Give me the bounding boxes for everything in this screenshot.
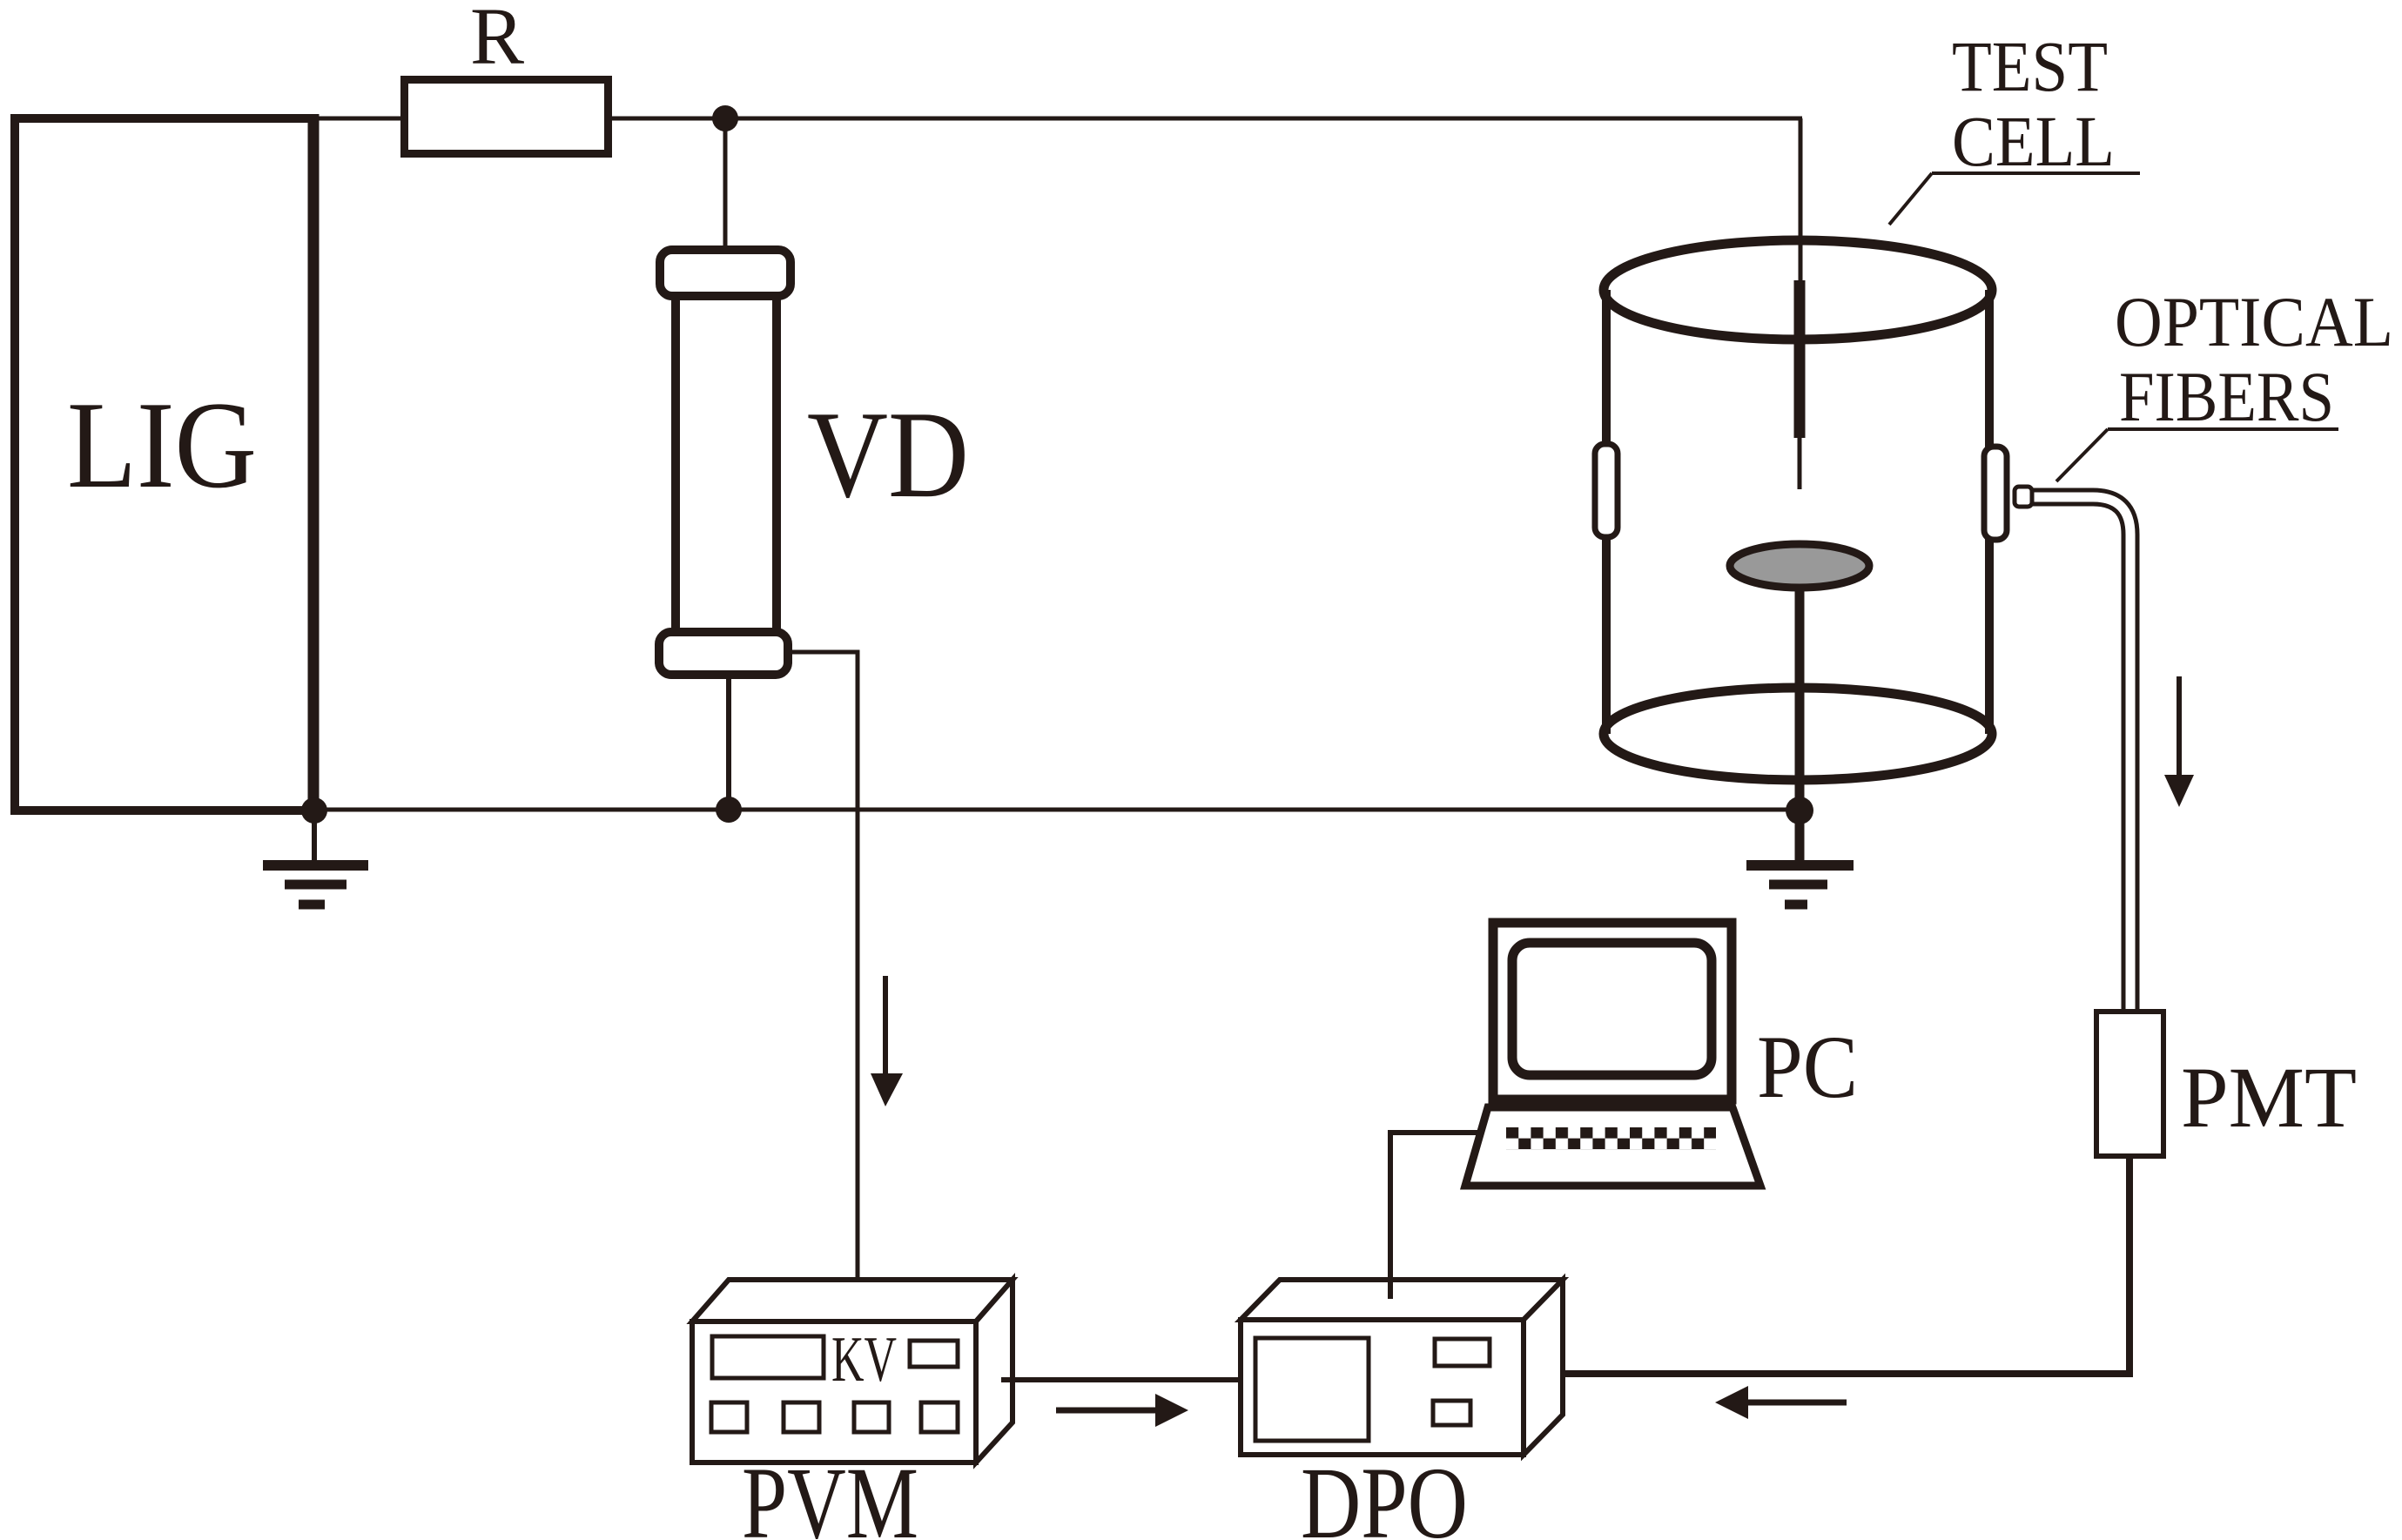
PMT box — [2096, 1012, 2163, 1156]
bottom electrode disc — [1730, 544, 1869, 588]
resistor R — [405, 80, 609, 154]
test cell cylinder left wall — [1602, 290, 1611, 734]
arrow right on PVM-DPO wire — [1056, 1408, 1158, 1414]
VD bottom cap — [659, 632, 788, 675]
PC monitor — [1493, 923, 1732, 1100]
svg-text:PVM: PVM — [742, 1446, 918, 1540]
wire R to test cell — [608, 117, 1802, 121]
node D junction dot — [301, 797, 327, 824]
ground (test cell) — [1746, 865, 1854, 904]
arrow down beside fiber — [2177, 676, 2182, 781]
wire VD bottom to node B — [726, 675, 731, 810]
test cell bottom ellipse — [1604, 688, 1992, 780]
PC keyboard — [1465, 1107, 1760, 1186]
keyboard keys — [1506, 1127, 1716, 1149]
svg-text:R: R — [470, 0, 524, 82]
LIG generator box — [15, 114, 313, 815]
node B junction dot — [716, 797, 742, 823]
svg-text:FIBERS: FIBERS — [2119, 357, 2334, 436]
top electrode — [1799, 118, 1803, 287]
wire VD tap to PVM — [788, 652, 858, 1288]
right window — [1984, 447, 2007, 540]
svg-text:PC: PC — [1757, 1018, 1858, 1117]
DPO oscilloscope 3D box — [1241, 1280, 1563, 1455]
wire node A down to VD — [723, 118, 728, 261]
node A junction dot — [712, 105, 738, 131]
wire PVM to DPO — [1001, 1377, 1241, 1382]
node C junction dot — [1786, 797, 1813, 824]
test cell cylinder right wall — [1985, 290, 1994, 734]
svg-text:OPTICAL: OPTICAL — [2115, 282, 2393, 361]
ground (LIG) — [263, 810, 368, 904]
fiber connector nub — [2015, 487, 2032, 507]
svg-text:PMT: PMT — [2181, 1049, 2357, 1146]
voltage divider VD body — [676, 279, 777, 653]
electrode stem — [1795, 590, 1805, 864]
PVM meter 3D box — [692, 1280, 1013, 1463]
svg-text:DPO: DPO — [1301, 1446, 1468, 1540]
svg-text:LIG: LIG — [67, 376, 257, 514]
svg-text:VD: VD — [807, 386, 969, 523]
svg-text:TEST: TEST — [1952, 26, 2108, 106]
VD top cap — [660, 250, 791, 296]
ground bus wire — [313, 808, 1800, 812]
left window — [1595, 444, 1618, 537]
wire DPO to PC — [1390, 1133, 1477, 1299]
arrow left on PMT-DPO wire — [1748, 1400, 1847, 1406]
wire LIG to R — [319, 117, 405, 121]
svg-text:CELL: CELL — [1952, 101, 2115, 181]
test cell top ellipse — [1604, 240, 1992, 340]
optical fiber tube — [2029, 497, 2130, 1019]
arrow down to PVM — [883, 976, 888, 1079]
svg-text:KV: KV — [831, 1324, 897, 1395]
wire PMT to DPO — [1539, 1156, 2130, 1374]
